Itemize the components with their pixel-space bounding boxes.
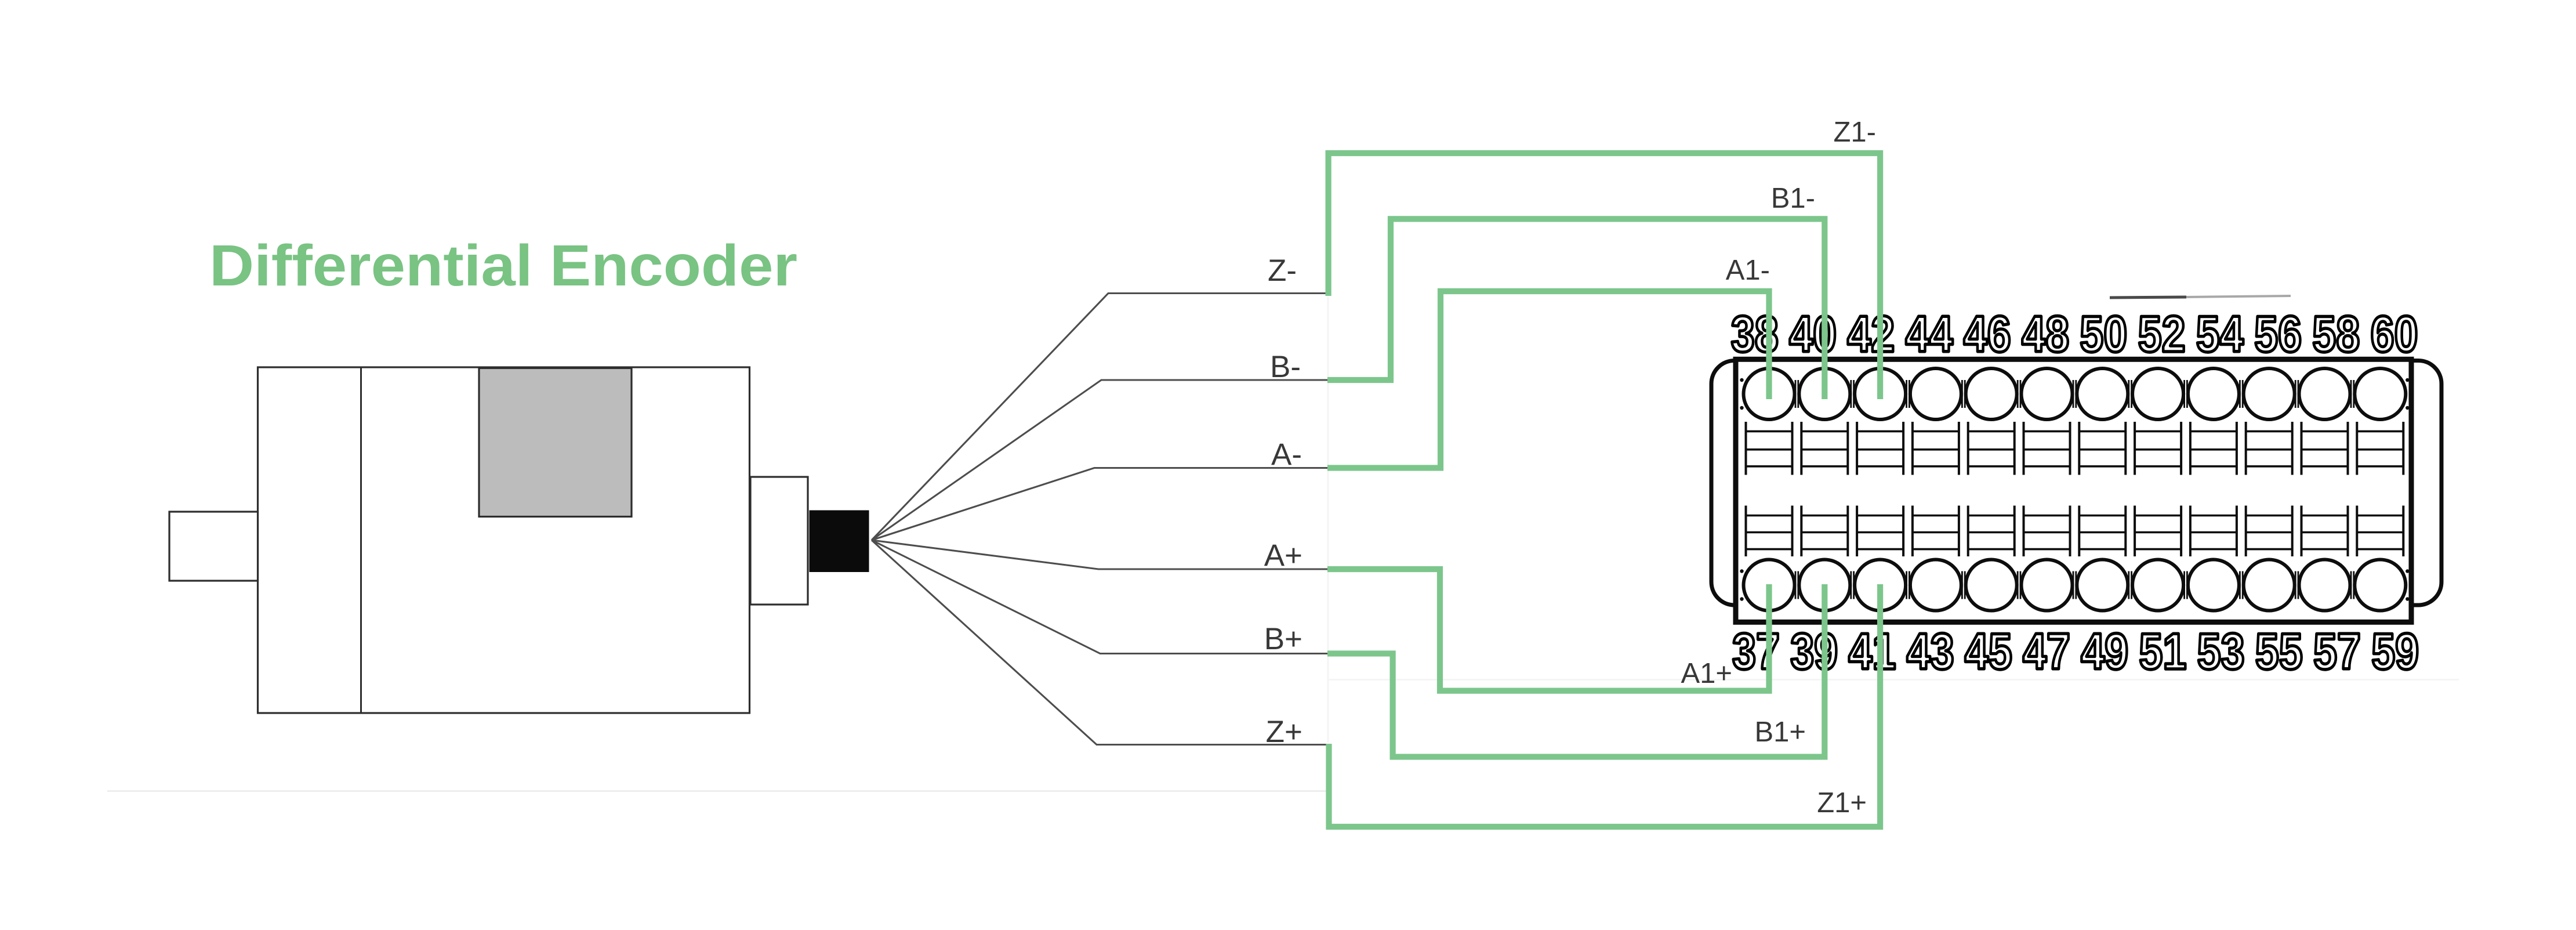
pin 53 contact circle [2188,506,2239,611]
smudge artifact above connector [2110,296,2291,298]
pin 37 contact circle [1744,506,1795,611]
tab between pin 48 and pin 50 [2073,380,2076,408]
pin 45 contact circle [1966,506,2017,611]
pin 38 contact circle [1744,368,1795,475]
svg-text:50: 50 [2080,305,2127,363]
green wire Z1- [1329,153,1881,399]
svg-text:48: 48 [2022,305,2069,363]
connector J1 body rectangle [1736,359,2411,622]
svg-text:59: 59 [2371,623,2419,680]
svg-text:52: 52 [2138,305,2186,363]
tab between pin 57 and pin 59 [2351,571,2354,599]
wire B+ from cable gland [872,540,1327,654]
svg-text:45: 45 [1965,623,2012,680]
faint artifact horizontal line 2 [1328,679,2459,681]
svg-text:44: 44 [1906,305,1953,363]
tab between pin 43 and pin 45 [1962,571,1965,599]
svg-text:47: 47 [2023,623,2070,680]
svg-text:A1-: A1- [1726,255,1770,286]
cable gland (black block) [810,511,869,573]
pin 60 contact circle [2354,368,2406,475]
tab between pin 45 and pin 47 [2018,571,2020,599]
pin 40 contact circle [1799,368,1850,475]
green wire Z1+ [1329,584,1881,827]
tab between pin 55 and pin 57 [2295,571,2298,599]
svg-text:57: 57 [2313,623,2361,680]
svg-text:B1+: B1+ [1754,717,1806,748]
green wire A1+ [1327,569,1769,691]
svg-text:41: 41 [1848,623,1896,680]
pin 42 contact circle [1855,368,1906,475]
pin 58 contact circle [2299,368,2350,475]
motor body [258,367,750,713]
svg-text:60: 60 [2371,305,2418,363]
tab between pin 50 and pin 52 [2129,380,2132,408]
svg-text:A+: A+ [1264,538,1302,573]
pin 51 contact circle [2132,506,2183,611]
tab between pin 56 and pin 58 [2295,380,2298,408]
tab between pin 41 and pin 43 [1907,571,1910,599]
wire Z+ from cable gland [872,540,1327,745]
tab between pin 39 and pin 41 [1851,571,1854,599]
tab between pin 54 and pin 56 [2240,380,2243,408]
pin 47 contact circle [2022,506,2073,611]
contact end nubs [1740,378,2409,601]
pin 52 contact circle [2132,368,2183,475]
pin 41 contact circle [1855,506,1906,611]
svg-text:40: 40 [1789,305,1837,363]
svg-text:B+: B+ [1264,622,1302,656]
svg-text:42: 42 [1847,305,1895,363]
tab between pin 53 and pin 55 [2240,571,2243,599]
green wire B1- [1327,219,1824,399]
svg-text:Z1-: Z1- [1834,117,1877,148]
pin 48 contact circle [2022,368,2073,475]
pin 49 contact circle [2077,506,2128,611]
pin 50 contact circle [2077,368,2128,475]
connector J1 outer rounded shell [1711,361,2441,606]
tab between pin 44 and pin 46 [1962,380,1965,408]
pin 57 contact circle [2299,506,2350,611]
svg-text:39: 39 [1790,623,1838,680]
svg-text:46: 46 [1964,305,2011,363]
svg-text:51: 51 [2139,623,2186,680]
svg-text:Z1+: Z1+ [1817,787,1867,819]
svg-text:A-: A- [1271,437,1302,472]
svg-text:54: 54 [2196,305,2244,363]
svg-text:58: 58 [2312,305,2360,363]
svg-text:B-: B- [1270,350,1301,384]
tab between pin 46 and pin 48 [2018,380,2020,408]
wire A- from cable gland [872,468,1327,541]
pin 39 contact circle [1799,506,1850,611]
tab between pin 47 and pin 49 [2073,571,2076,599]
pin 54 contact circle [2188,368,2239,475]
svg-text:B1-: B1- [1771,183,1815,214]
tab between pin 58 and pin 60 [2351,380,2354,408]
green wire B1+ [1327,584,1824,757]
svg-text:53: 53 [2197,623,2245,680]
pin 44 contact circle [1910,368,1961,475]
faint artifact horizontal line [107,790,1328,792]
tab between pin 38 and pin 40 [1795,380,1798,408]
motor shaft [169,512,258,581]
rear flange [750,477,808,605]
tab between pin 37 and pin 39 [1795,571,1798,599]
svg-text:55: 55 [2255,623,2303,680]
tab between pin 49 and pin 51 [2129,571,2132,599]
svg-text:A1+: A1+ [1681,658,1732,689]
svg-text:Z+: Z+ [1266,715,1302,749]
encoder housing (gray box) [479,368,632,517]
pin 43 contact circle [1910,506,1961,611]
wire B- from cable gland [872,380,1327,540]
wire Z- from cable gland [872,294,1327,541]
svg-text:49: 49 [2081,623,2128,680]
svg-text:56: 56 [2254,305,2302,363]
svg-text:Differential Encoder: Differential Encoder [209,233,797,298]
svg-text:Z-: Z- [1268,254,1297,288]
faint artifact vertical line [1327,297,1329,743]
svg-text:43: 43 [1907,623,1954,680]
tab between pin 51 and pin 53 [2185,571,2187,599]
green wire A1- [1327,291,1769,468]
wire A+ from cable gland [872,540,1327,569]
pin 55 contact circle [2244,506,2295,611]
pin 46 contact circle [1966,368,2017,475]
svg-text:37: 37 [1732,623,1780,680]
pin 56 contact circle [2244,368,2295,475]
tab between pin 52 and pin 54 [2185,380,2187,408]
motor front plate divider [360,367,362,713]
pin 59 contact circle [2354,506,2406,611]
tab between pin 42 and pin 44 [1907,380,1910,408]
tab between pin 40 and pin 42 [1851,380,1854,408]
